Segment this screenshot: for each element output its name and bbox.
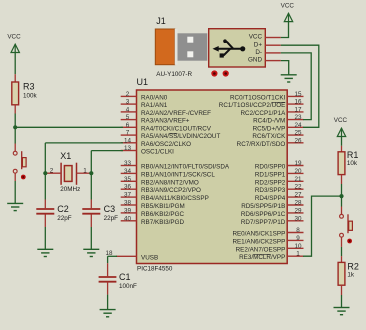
- wire button1 to ground: [14, 181, 16, 203]
- R2 top lead: [341, 256, 343, 262]
- svg-text:RE0/AN5/CK1SPP: RE0/AN5/CK1SPP: [232, 231, 285, 238]
- R3 top lead: [14, 74, 16, 82]
- svg-text:40: 40: [124, 215, 132, 222]
- wire USB VCC to power: [281, 21, 289, 37]
- svg-text:RA0/AN0: RA0/AN0: [141, 94, 168, 101]
- pin 39 stub: [121, 212, 137, 214]
- R1 bottom lead: [341, 175, 343, 184]
- svg-text:RB5/KBI1/PGM: RB5/KBI1/PGM: [141, 203, 185, 210]
- pin 4 stub: [121, 111, 137, 113]
- svg-text:RD2/SPP2: RD2/SPP2: [255, 179, 286, 186]
- svg-text:RC2/CCP1/P1A: RC2/CCP1/P1A: [241, 110, 287, 117]
- wire down to crystal pin2: [44, 143, 46, 173]
- svg-text:36: 36: [124, 184, 132, 191]
- pin 34 stub: [121, 172, 137, 174]
- VCC power symbol left: [11, 44, 19, 52]
- wire to C3: [90, 173, 92, 199]
- button1 top lead: [14, 144, 16, 152]
- svg-text:RC4/D-/VM: RC4/D-/VM: [253, 118, 285, 125]
- pin 25 stub: [287, 134, 303, 136]
- svg-text:23: 23: [294, 114, 302, 121]
- resistor R2: [338, 262, 345, 285]
- USB stub row 2: [265, 44, 281, 46]
- svg-text:RA4/T0CKI/C1OUT/RCV: RA4/T0CKI/C1OUT/RCV: [141, 125, 212, 132]
- resistor R3: [12, 82, 19, 105]
- svg-text:5: 5: [126, 114, 130, 121]
- svg-text:16: 16: [294, 99, 302, 106]
- svg-text:RB7/KBI3/PGD: RB7/KBI3/PGD: [141, 219, 184, 226]
- svg-text:R1: R1: [347, 150, 359, 160]
- svg-text:J1: J1: [156, 16, 166, 26]
- USB stub row 4: [265, 60, 281, 62]
- svg-text:X1: X1: [60, 151, 71, 161]
- svg-text:7: 7: [126, 130, 130, 137]
- svg-text:1: 1: [296, 251, 300, 258]
- wire USB D+ to pin24: [281, 45, 319, 127]
- svg-text:RE3/MCLR/VPP: RE3/MCLR/VPP: [239, 254, 285, 261]
- R2 bottom lead: [341, 286, 343, 295]
- svg-text:15: 15: [294, 91, 302, 98]
- svg-text:38: 38: [124, 200, 132, 207]
- svg-text:VUSB: VUSB: [141, 254, 158, 261]
- svg-text:1: 1: [83, 167, 87, 174]
- pin 27 stub: [287, 196, 303, 198]
- pin 30 stub: [287, 220, 303, 222]
- svg-text:13: 13: [124, 145, 132, 152]
- svg-text:39: 39: [124, 207, 132, 214]
- wire R2 to ground: [341, 295, 343, 308]
- svg-text:RD5/SPP5/P1B: RD5/SPP5/P1B: [241, 203, 285, 210]
- pin 13 stub: [121, 150, 137, 152]
- svg-text:30: 30: [294, 215, 302, 222]
- svg-text:2: 2: [126, 91, 130, 98]
- svg-text:3: 3: [126, 99, 130, 106]
- ground under R2: [334, 308, 350, 315]
- pin 23 stub: [287, 119, 303, 121]
- pin 35 stub: [121, 180, 137, 182]
- svg-text:20: 20: [294, 168, 302, 175]
- C3 top lead: [90, 200, 92, 209]
- svg-text:22pF: 22pF: [104, 215, 119, 222]
- svg-text:RD4/SPP4: RD4/SPP4: [255, 195, 286, 202]
- pin 9 stub: [287, 239, 303, 241]
- junction node crystal pin1: [89, 171, 93, 175]
- svg-text:VCC: VCC: [281, 2, 295, 9]
- pin 28 stub: [287, 204, 303, 206]
- svg-text:RB2/AN8/INT2/VMO: RB2/AN8/INT2/VMO: [141, 179, 199, 186]
- svg-text:26: 26: [294, 137, 302, 144]
- svg-text:33: 33: [124, 160, 132, 167]
- svg-text:RD3/SPP3: RD3/SPP3: [255, 187, 286, 194]
- wire VCC to R1: [341, 137, 343, 146]
- wire down to C1: [107, 256, 109, 263]
- chip U1 PIC18F4550 body: [137, 90, 288, 264]
- wire USB GND down: [281, 61, 289, 75]
- crystal right lead: [77, 172, 92, 174]
- svg-text:C2: C2: [57, 204, 69, 214]
- pin 22 stub: [287, 188, 303, 190]
- wire R1 to junction: [341, 184, 343, 196]
- wire junction down to button: [14, 127, 16, 143]
- C2 bottom lead: [44, 215, 46, 228]
- ground under USB GND: [281, 75, 297, 82]
- svg-text:RA6/OSC2/CLKO: RA6/OSC2/CLKO: [141, 141, 191, 148]
- pin 5 stub: [121, 119, 137, 121]
- svg-text:D-: D-: [255, 49, 262, 56]
- capacitor C3: [82, 209, 100, 214]
- wire USB D- to pin23: [281, 53, 311, 120]
- R3 bottom lead: [14, 105, 16, 114]
- svg-text:RC7/RX/DT/SDO: RC7/RX/DT/SDO: [237, 141, 286, 148]
- pin 38 stub: [121, 204, 137, 206]
- svg-text:14: 14: [124, 137, 132, 144]
- pin 14 stub: [121, 142, 137, 144]
- crystal left lead: [45, 172, 61, 174]
- pin 29 stub: [287, 212, 303, 214]
- pin 7 stub: [121, 134, 137, 136]
- svg-text:6: 6: [126, 122, 130, 129]
- USB trident icon: [213, 39, 246, 57]
- svg-text:RA1/AN1: RA1/AN1: [141, 102, 168, 109]
- resistor R1: [338, 152, 345, 175]
- USB plug light strip: [175, 29, 178, 65]
- pin 3 stub: [121, 103, 137, 105]
- svg-text:RE1/AN6/CK2SPP: RE1/AN6/CK2SPP: [232, 238, 285, 245]
- wire OSC1 pin13 horizontal: [91, 150, 123, 152]
- pin 36 stub: [121, 188, 137, 190]
- pin 15 stub: [287, 95, 303, 97]
- wire C2 to ground: [44, 227, 46, 249]
- svg-text:35: 35: [124, 176, 132, 183]
- ground under button1: [7, 203, 23, 210]
- svg-text:AU-Y1007-R: AU-Y1007-R: [156, 71, 192, 78]
- C3 bottom lead: [90, 215, 92, 228]
- junction node RA4: [13, 125, 17, 129]
- svg-text:D+: D+: [254, 41, 263, 48]
- ground under C1: [100, 310, 116, 317]
- svg-text:24: 24: [294, 122, 302, 129]
- svg-text:RA5/AN4/SS/LVDIN/C2OUT: RA5/AN4/SS/LVDIN/C2OUT: [141, 133, 220, 140]
- capacitor C2: [36, 209, 54, 214]
- svg-text:RB4/AN11/KBI0/CSSPP: RB4/AN11/KBI0/CSSPP: [141, 195, 209, 202]
- pin 26 stub: [287, 142, 303, 144]
- C1 bottom lead: [107, 282, 109, 295]
- wire R3 to junction: [14, 114, 16, 128]
- svg-text:VCC: VCC: [334, 117, 348, 124]
- svg-text:RC1/T1OSI/CCP2/UOE: RC1/T1OSI/CCP2/UOE: [219, 102, 286, 109]
- pin 19 stub: [287, 165, 303, 167]
- svg-text:22pF: 22pF: [57, 215, 72, 222]
- wire C3 to ground: [90, 227, 92, 249]
- pin 20 stub: [287, 172, 303, 174]
- USB mount pad dot 2: [223, 70, 229, 76]
- svg-text:GND: GND: [248, 57, 262, 64]
- svg-text:21: 21: [294, 176, 302, 183]
- junction node MCLR: [339, 194, 343, 198]
- ground under C3: [83, 249, 99, 256]
- pin 10 stub: [287, 247, 303, 249]
- svg-text:RC0/T1OSO/T1CKI: RC0/T1OSO/T1CKI: [230, 94, 286, 101]
- svg-text:2: 2: [50, 167, 54, 174]
- wire C1 to ground: [107, 295, 109, 310]
- svg-text:C1: C1: [119, 272, 131, 282]
- svg-text:RA2/AN2/VREF-/CVREF: RA2/AN2/VREF-/CVREF: [141, 110, 211, 117]
- svg-text:20MHz: 20MHz: [60, 186, 80, 193]
- wire junction to pin1 MCLR: [303, 196, 342, 256]
- wire button2 to R2: [341, 247, 343, 256]
- USB mount pad dot 1: [211, 70, 217, 76]
- wire to C2: [44, 173, 46, 199]
- capacitor C1: [99, 277, 117, 282]
- USB symbol box J1: [209, 29, 266, 67]
- svg-text:RB0/AN12/INT0/FLT0/SDI/SDA: RB0/AN12/INT0/FLT0/SDI/SDA: [141, 164, 230, 171]
- wire down to crystal pin1: [90, 151, 92, 174]
- VCC power symbol top right: [284, 13, 292, 21]
- R1 top lead: [341, 146, 343, 152]
- pin 21 stub: [287, 180, 303, 182]
- svg-text:34: 34: [124, 168, 132, 175]
- svg-text:8: 8: [296, 227, 300, 234]
- pin 17 stub: [287, 111, 303, 113]
- svg-text:RB1/AN10/INT1/SCK/SCL: RB1/AN10/INT1/SCK/SCL: [141, 171, 215, 178]
- push button SW1: [13, 151, 26, 179]
- svg-text:VCC: VCC: [249, 34, 263, 41]
- pin 2 stub: [121, 95, 137, 97]
- C1 top lead: [107, 263, 109, 276]
- svg-text:R2: R2: [347, 262, 359, 272]
- button1 bottom lead: [14, 173, 16, 181]
- wire junction to button2: [341, 196, 343, 206]
- pin 18 stub: [116, 255, 137, 257]
- USB metal shell: [178, 33, 208, 60]
- wire OSC2 pin14 horizontal: [45, 142, 123, 144]
- ground under C2: [37, 249, 53, 256]
- svg-text:29: 29: [294, 207, 302, 214]
- crystal X1: [61, 163, 76, 185]
- svg-text:PIC18F4550: PIC18F4550: [137, 266, 173, 273]
- svg-text:37: 37: [124, 192, 132, 199]
- svg-text:C3: C3: [104, 204, 116, 214]
- svg-text:19: 19: [294, 160, 302, 167]
- USB stub row 1: [265, 37, 281, 39]
- svg-text:27: 27: [294, 192, 302, 199]
- USB shell hole top: [187, 37, 193, 43]
- pin 40 stub: [121, 220, 137, 222]
- svg-text:OSC1/CLKI: OSC1/CLKI: [141, 149, 174, 156]
- svg-text:U1: U1: [137, 77, 149, 87]
- pin 6 stub: [121, 126, 137, 128]
- wire junction to pin6 RA4: [15, 126, 123, 128]
- svg-text:RC6/TX/CK: RC6/TX/CK: [252, 133, 286, 140]
- svg-text:17: 17: [294, 106, 302, 113]
- svg-text:100nF: 100nF: [119, 283, 137, 290]
- svg-text:22: 22: [294, 184, 302, 191]
- button2 top lead: [341, 207, 343, 215]
- VCC power symbol right: [337, 128, 345, 136]
- C2 top lead: [44, 200, 46, 209]
- USB plug orange body: [155, 29, 174, 65]
- svg-text:28: 28: [294, 200, 302, 207]
- svg-text:R3: R3: [23, 82, 35, 92]
- pin 16 stub: [287, 103, 303, 105]
- svg-text:RD1/SPP1: RD1/SPP1: [255, 171, 286, 178]
- svg-text:RC5/D+/VP: RC5/D+/VP: [253, 125, 286, 132]
- wire pin18 VUSB: [108, 255, 117, 257]
- svg-text:RA3/AN3/VREF+: RA3/AN3/VREF+: [141, 118, 190, 125]
- pin 24 stub: [287, 126, 303, 128]
- svg-text:RD6/SPP6/P1C: RD6/SPP6/P1C: [241, 211, 286, 218]
- svg-text:4: 4: [126, 106, 130, 113]
- pin 8 stub: [287, 232, 303, 234]
- svg-text:25: 25: [294, 130, 302, 137]
- svg-text:1k: 1k: [347, 271, 355, 278]
- USB stub row 3: [265, 52, 281, 54]
- USB shell hole bottom: [187, 51, 193, 57]
- svg-text:RB6/KBI2/PGC: RB6/KBI2/PGC: [141, 211, 184, 218]
- svg-text:10: 10: [294, 243, 302, 250]
- svg-text:RB3/AN9/CCP2/VPO: RB3/AN9/CCP2/VPO: [141, 187, 201, 194]
- svg-text:VCC: VCC: [7, 34, 21, 41]
- junction node crystal pin2: [43, 171, 47, 175]
- button2 bottom lead: [341, 237, 343, 247]
- svg-text:RD0/SPP0: RD0/SPP0: [255, 164, 286, 171]
- pin 33 stub: [121, 165, 137, 167]
- svg-text:9: 9: [296, 235, 300, 242]
- svg-text:RD7/SPP7/P1D: RD7/SPP7/P1D: [241, 219, 286, 226]
- svg-text:100k: 100k: [23, 93, 38, 100]
- pin 1 stub: [287, 255, 303, 257]
- push button SW2: [340, 214, 353, 243]
- wire VCC to R3: [14, 52, 16, 74]
- svg-text:10k: 10k: [347, 160, 358, 167]
- svg-text:RE2/AN7/OESPP: RE2/AN7/OESPP: [236, 246, 286, 253]
- pin 37 stub: [121, 196, 137, 198]
